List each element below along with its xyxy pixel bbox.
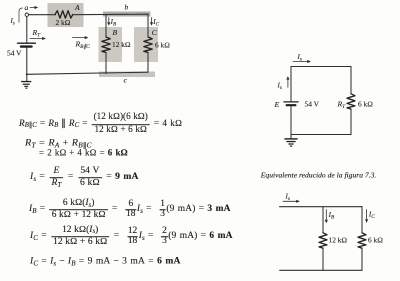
equation line 4 xyxy=(30,167,139,189)
ground symbol xyxy=(290,135,292,139)
current arrow I_B xyxy=(325,210,327,221)
wire: left wire upper xyxy=(290,67,292,102)
svg-text:IC: IC xyxy=(368,211,375,221)
svg-text:Is: Is xyxy=(285,193,290,203)
svg-text:a: a xyxy=(25,3,29,12)
wire: left wire lower xyxy=(290,107,292,135)
svg-text:RT: RT xyxy=(32,28,42,39)
label R_B||C with arrow xyxy=(73,37,86,39)
wire: branch 6k lower xyxy=(361,248,363,270)
wire: branch 6k upper xyxy=(361,207,363,233)
svg-text:A: A xyxy=(74,3,80,12)
highlight box around resistor A xyxy=(48,3,84,27)
ground symbol xyxy=(26,74,28,81)
equation line 6 xyxy=(30,226,233,248)
current arrow I_C xyxy=(151,18,153,23)
svg-text:IB: IB xyxy=(328,211,335,221)
wire: left wire from battery to bottom wire xyxy=(26,48,28,74)
wire: top wire from node a to resistor A xyxy=(28,14,55,16)
svg-text:Is: Is xyxy=(277,82,282,92)
highlight band on node-b top wire xyxy=(103,12,151,17)
equation line 1 xyxy=(19,114,182,136)
battery E xyxy=(284,101,298,103)
svg-text:Is: Is xyxy=(10,18,15,26)
svg-text:B: B xyxy=(113,28,118,37)
equation line 5 xyxy=(29,199,231,221)
svg-text:IB: IB xyxy=(110,18,117,28)
wire: top wire xyxy=(291,66,351,68)
junction dot at battery bottom xyxy=(26,73,28,75)
wire: branch C upper xyxy=(147,14,149,37)
highlight box around resistor C xyxy=(134,27,158,62)
battery 54 V xyxy=(18,42,36,44)
svg-text:6 kΩ: 6 kΩ xyxy=(368,236,383,245)
svg-text:54 V: 54 V xyxy=(305,100,320,109)
svg-text:6 kΩ: 6 kΩ xyxy=(358,100,373,109)
resistor R_T xyxy=(347,94,355,109)
svg-text:12 kΩ: 12 kΩ xyxy=(112,40,131,49)
svg-text:RT: RT xyxy=(337,100,347,111)
svg-text:IC: IC xyxy=(152,18,159,28)
wire: left wire from node a down to battery xyxy=(26,16,28,42)
resistor C xyxy=(144,37,152,53)
wire: top wire from resistor A to node C branch xyxy=(73,13,148,16)
svg-text:2 kΩ: 2 kΩ xyxy=(56,18,71,27)
wire: right wire lower xyxy=(350,109,352,134)
wire: branch 12k lower xyxy=(322,248,324,270)
wire: bottom wire xyxy=(291,134,351,136)
resistor 12 kOhm xyxy=(319,233,327,248)
current arrow I_B xyxy=(108,18,110,23)
svg-text:E: E xyxy=(274,100,280,109)
wire: branch 12k upper xyxy=(322,207,324,233)
wire: bottom wire xyxy=(280,269,362,271)
resistor B xyxy=(102,37,110,53)
svg-text:Equivalente reducido de la fig: Equivalente reducido de la figura 7.3. xyxy=(260,170,377,179)
highlight band on node-c bottom wire xyxy=(99,72,155,78)
svg-text:b: b xyxy=(125,3,129,12)
node a xyxy=(25,13,28,16)
wire: top wire xyxy=(280,206,362,208)
highlight box around resistor B xyxy=(99,27,123,62)
resistor 6 kOhm xyxy=(358,233,366,248)
wire: branch C lower xyxy=(147,53,149,73)
resistor A xyxy=(55,11,73,18)
equation line 7 xyxy=(30,258,180,267)
current I_s leader hook xyxy=(19,8,23,23)
wire: branch B upper xyxy=(105,14,107,37)
equation line 2 xyxy=(25,139,92,148)
svg-text:RB∥C: RB∥C xyxy=(75,40,91,51)
wire: bottom wire node c xyxy=(27,72,148,74)
svg-text:Is: Is xyxy=(297,53,302,63)
current arrow I_C xyxy=(366,210,368,220)
svg-text:12 kΩ: 12 kΩ xyxy=(329,236,348,245)
wire: branch B lower xyxy=(105,53,107,74)
svg-text:54 V: 54 V xyxy=(7,49,22,58)
equation line 3 xyxy=(39,150,128,159)
wire: right wire upper xyxy=(350,67,352,94)
svg-text:6 kΩ: 6 kΩ xyxy=(155,41,170,50)
